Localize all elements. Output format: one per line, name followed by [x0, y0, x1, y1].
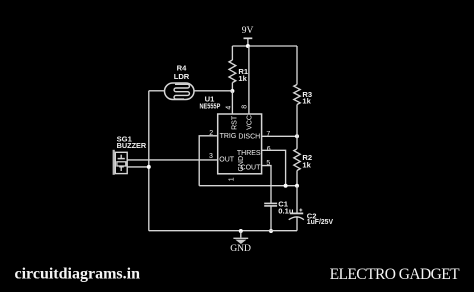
svg-text:3: 3 — [209, 153, 213, 160]
wire OUT pin 3 — [127, 159, 218, 161]
svg-text:1: 1 — [229, 177, 236, 181]
LDR R4 — [165, 64, 195, 100]
buzzer SG1 — [114, 134, 147, 174]
wire THRES pin 6 — [262, 150, 286, 185]
wire VCC pin 8 — [248, 46, 250, 114]
svg-text:LDR: LDR — [174, 72, 190, 81]
svg-text:circuitdiagrams.in: circuitdiagrams.in — [15, 265, 141, 282]
svg-text:9V: 9V — [242, 26, 254, 36]
junction THRES tie — [284, 184, 288, 188]
svg-text:8: 8 — [241, 105, 248, 109]
wire DISCH pin 7 — [262, 135, 297, 137]
wire LDR left — [149, 90, 165, 92]
junction buzzer/ground branch — [147, 165, 151, 169]
svg-text:1k: 1k — [238, 74, 247, 83]
wire ground rail — [149, 230, 297, 232]
resistor R1 — [229, 46, 249, 91]
svg-text:ELECTRO GADGET: ELECTRO GADGET — [330, 266, 461, 283]
junction C1 / ground rail — [269, 229, 273, 233]
junction 9V node — [246, 44, 250, 48]
wire RST pin 4 — [231, 91, 233, 114]
svg-text:TRIG: TRIG — [220, 133, 237, 140]
svg-text:1k: 1k — [302, 97, 311, 106]
IC U1 NE555P — [200, 95, 262, 174]
wire top rail — [232, 45, 297, 47]
wire LDR right to R1 node — [194, 90, 232, 92]
svg-text:DISCH: DISCH — [238, 134, 260, 141]
junction DISCH / R3 / R2 — [295, 134, 299, 138]
svg-text:NE555P: NE555P — [200, 102, 221, 111]
svg-text:6: 6 — [267, 146, 271, 153]
wire TRIG pin 2 — [199, 136, 218, 186]
svg-text:1k: 1k — [302, 161, 311, 170]
junction R1 / LDR / RST — [230, 89, 234, 93]
ground GND — [230, 231, 251, 254]
power terminal 9V — [242, 26, 254, 46]
wire left vertical (LDR to ground rail) — [148, 91, 150, 231]
wire COUT pin 5 to C1 — [262, 166, 271, 204]
capacitor C2 — [289, 186, 334, 231]
svg-text:RST: RST — [231, 115, 238, 130]
svg-text:BUZZER: BUZZER — [117, 141, 147, 150]
junction ground / GND symbol — [239, 229, 243, 233]
svg-text:OUT: OUT — [219, 156, 235, 163]
svg-text:THRES: THRES — [237, 150, 261, 157]
resistor R2 — [294, 136, 312, 185]
wire TRIG-THRES tie line — [199, 185, 297, 187]
svg-text:VCC: VCC — [246, 115, 253, 130]
capacitor C1 — [264, 200, 294, 231]
svg-text:GND: GND — [238, 156, 245, 172]
wire buzzer bottom terminal — [127, 166, 149, 168]
junction R2 / C2 node — [295, 184, 299, 188]
svg-text:1uF/25V: 1uF/25V — [307, 217, 334, 226]
svg-text:4: 4 — [226, 106, 233, 110]
resistor R3 — [294, 46, 312, 136]
svg-text:GND: GND — [230, 243, 251, 254]
